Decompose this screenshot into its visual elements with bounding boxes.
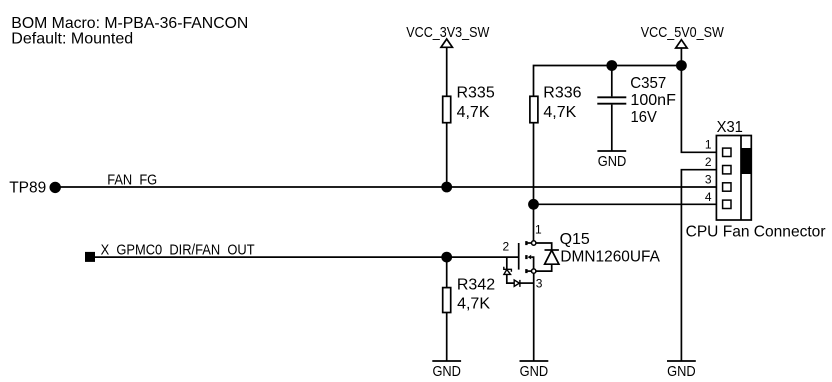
svg-text:X31: X31 — [717, 119, 743, 136]
wire R336 top corner to VCC rail — [534, 66, 682, 97]
wire connector pin 2 down to ground — [681, 170, 716, 361]
svg-text:X_GPMC0_DIR/FAN_OUT: X_GPMC0_DIR/FAN_OUT — [101, 242, 255, 259]
svg-text:4,7K: 4,7K — [457, 104, 490, 121]
wire Q15 source down to ground — [533, 273, 535, 361]
pin 3 square X31 — [723, 183, 731, 191]
note BOM Macro title text — [11, 15, 248, 48]
svg-text:FAN_FG: FAN_FG — [107, 172, 157, 189]
Q15 gate plate — [518, 243, 520, 270]
junction R336/pin4 wire — [528, 199, 539, 210]
ground symbol below C357 — [597, 151, 626, 170]
svg-text:C357: C357 — [630, 75, 666, 92]
wire VCC_5V0_SW down to rail junction — [680, 48, 682, 66]
junction VCC_5V0/rail — [676, 60, 687, 71]
Q15 gate ESD zener branch — [506, 257, 508, 269]
wire pin4 junction to connector pin 4 — [534, 203, 717, 205]
pin 4 square X31 — [723, 200, 731, 208]
Q15 body arrow — [528, 255, 532, 260]
power VCC_5V0_SW symbol — [641, 24, 725, 48]
svg-text:GND: GND — [432, 363, 461, 380]
Q15 drain pad circle — [532, 241, 536, 245]
ground symbol below pin 2 — [667, 361, 696, 380]
svg-text:GND: GND — [667, 363, 696, 380]
wire VCC_3V3_SW to R335 top — [446, 47, 448, 96]
svg-text:3: 3 — [536, 276, 543, 290]
svg-text:R336: R336 — [543, 85, 581, 102]
transistor Q15 DMN1260UFA — [504, 241, 559, 287]
wire R336 bottom to pin4 junction — [533, 123, 535, 205]
resistor R336 — [530, 85, 582, 123]
svg-text:1: 1 — [705, 138, 712, 152]
Q15 channel bar bottom — [525, 269, 527, 273]
wire R342 bottom to ground — [446, 313, 448, 362]
svg-text:GND: GND — [520, 363, 549, 380]
svg-text:BOM Macro: M-PBA-36-FANCON: BOM Macro: M-PBA-36-FANCON — [11, 15, 248, 32]
svg-text:Default: Mounted: Default: Mounted — [11, 31, 133, 48]
svg-text:GND: GND — [598, 153, 627, 170]
node X_GPMC0_DIR/FAN_OUT port square — [85, 252, 95, 262]
Q15 body diode branch — [536, 243, 552, 250]
wire junction down to Q15 drain — [533, 204, 535, 241]
pin 1 square X31 — [723, 148, 731, 156]
svg-text:2: 2 — [503, 240, 510, 254]
svg-text:Q15: Q15 — [560, 231, 590, 248]
svg-text:2: 2 — [705, 155, 712, 169]
svg-text:4: 4 — [705, 190, 712, 204]
junction R342/X_GPMC0 line — [441, 252, 452, 263]
svg-text:R335: R335 — [457, 85, 495, 102]
junction C357/VCC rail — [606, 60, 617, 71]
svg-text:VCC_5V0_SW: VCC_5V0_SW — [641, 24, 725, 41]
svg-text:TP89: TP89 — [9, 180, 46, 197]
wire VCC_5V0 down to connector pin 1 — [681, 66, 716, 153]
resistor R335 — [443, 85, 495, 123]
wire X_GPMC0_DIR/FAN_OUT horizontal to Q15 gate — [95, 256, 519, 258]
wire R335 bottom to FAN_FG — [446, 123, 448, 187]
resistor R342 — [443, 277, 496, 313]
Q15 source pad circle — [532, 269, 536, 273]
ground symbol below R342 — [432, 361, 461, 380]
svg-text:R342: R342 — [457, 277, 495, 294]
Q15 channel bar middle — [525, 255, 527, 259]
testpoint TP89 — [9, 180, 61, 197]
connector X31 — [716, 119, 751, 220]
svg-text:VCC_3V3_SW: VCC_3V3_SW — [406, 24, 490, 41]
Q15 body stub to source — [531, 257, 533, 269]
Q15 channel bar top — [525, 241, 527, 245]
power VCC_3V3_SW symbol — [406, 24, 490, 47]
svg-text:DMN1260UFA: DMN1260UFA — [560, 249, 660, 266]
Q15 source stub — [528, 270, 532, 272]
pin 2 square X31 — [723, 166, 731, 174]
svg-text:CPU Fan Connector: CPU Fan Connector — [686, 223, 827, 240]
svg-text:3: 3 — [705, 172, 712, 186]
svg-text:4,7K: 4,7K — [543, 104, 576, 121]
wire FAN_FG horizontal from TP89 to connector pin 3 — [55, 186, 716, 188]
Q15 drain stub — [528, 242, 532, 244]
wire junction to R342 top — [446, 257, 448, 288]
svg-text:4,7K: 4,7K — [457, 296, 490, 313]
ground symbol below Q15 — [520, 361, 549, 380]
svg-text:16V: 16V — [631, 109, 658, 126]
capacitor C357 — [597, 66, 676, 152]
junction R335/FAN_FG — [441, 182, 452, 193]
svg-text:1: 1 — [535, 222, 542, 236]
svg-text:100nF: 100nF — [630, 92, 676, 109]
